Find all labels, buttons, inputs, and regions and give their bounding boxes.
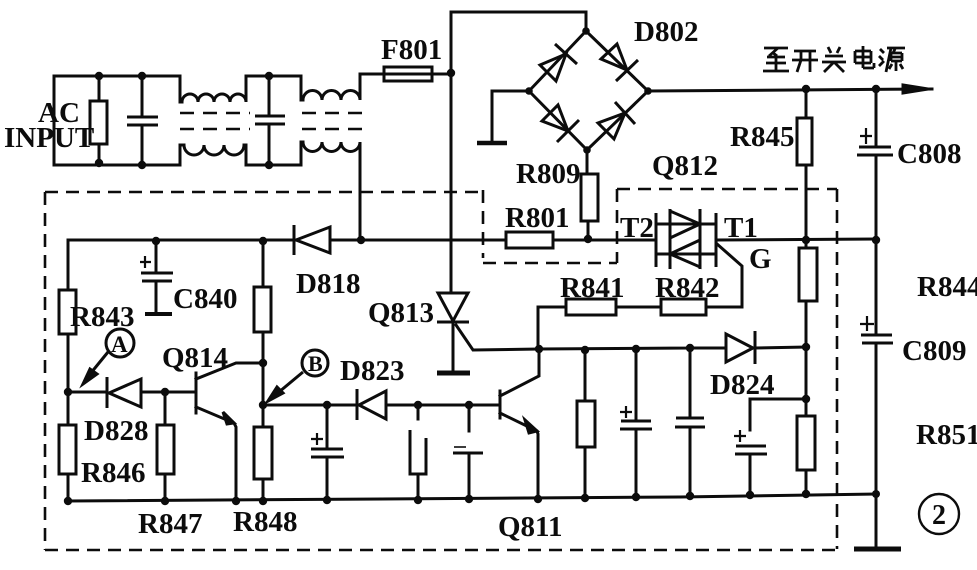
svg-text:R844: R844 bbox=[917, 271, 977, 303]
svg-text:Q812: Q812 bbox=[652, 150, 718, 182]
svg-text:D824: D824 bbox=[710, 369, 774, 401]
svg-text:R851: R851 bbox=[916, 419, 977, 451]
svg-text:G: G bbox=[749, 243, 772, 275]
svg-text:T1: T1 bbox=[724, 212, 758, 244]
svg-text:Q811: Q811 bbox=[498, 511, 562, 543]
svg-text:D823: D823 bbox=[340, 355, 404, 387]
svg-text:R801: R801 bbox=[505, 202, 569, 234]
svg-text:T2: T2 bbox=[620, 212, 654, 244]
svg-text:D828: D828 bbox=[84, 415, 148, 447]
svg-text:R846: R846 bbox=[81, 457, 145, 489]
svg-text:B: B bbox=[308, 351, 323, 376]
svg-text:D818: D818 bbox=[296, 268, 360, 300]
svg-text:Q814: Q814 bbox=[162, 342, 228, 374]
svg-text:R841: R841 bbox=[560, 272, 624, 304]
svg-text:R847: R847 bbox=[138, 508, 202, 540]
svg-text:R843: R843 bbox=[70, 301, 134, 333]
svg-text:Q813: Q813 bbox=[368, 297, 434, 329]
svg-text:F801: F801 bbox=[381, 34, 442, 66]
svg-text:2: 2 bbox=[932, 500, 946, 531]
svg-text:R848: R848 bbox=[233, 506, 297, 538]
svg-text:A: A bbox=[111, 332, 128, 357]
svg-text:C840: C840 bbox=[173, 283, 237, 315]
svg-text:R842: R842 bbox=[655, 272, 719, 304]
svg-text:D802: D802 bbox=[634, 16, 698, 48]
svg-text:C809: C809 bbox=[902, 335, 966, 367]
svg-text:R845: R845 bbox=[730, 121, 794, 153]
svg-text:INPUT: INPUT bbox=[4, 122, 94, 154]
svg-text:R809: R809 bbox=[516, 158, 580, 190]
svg-text:C808: C808 bbox=[897, 138, 961, 170]
